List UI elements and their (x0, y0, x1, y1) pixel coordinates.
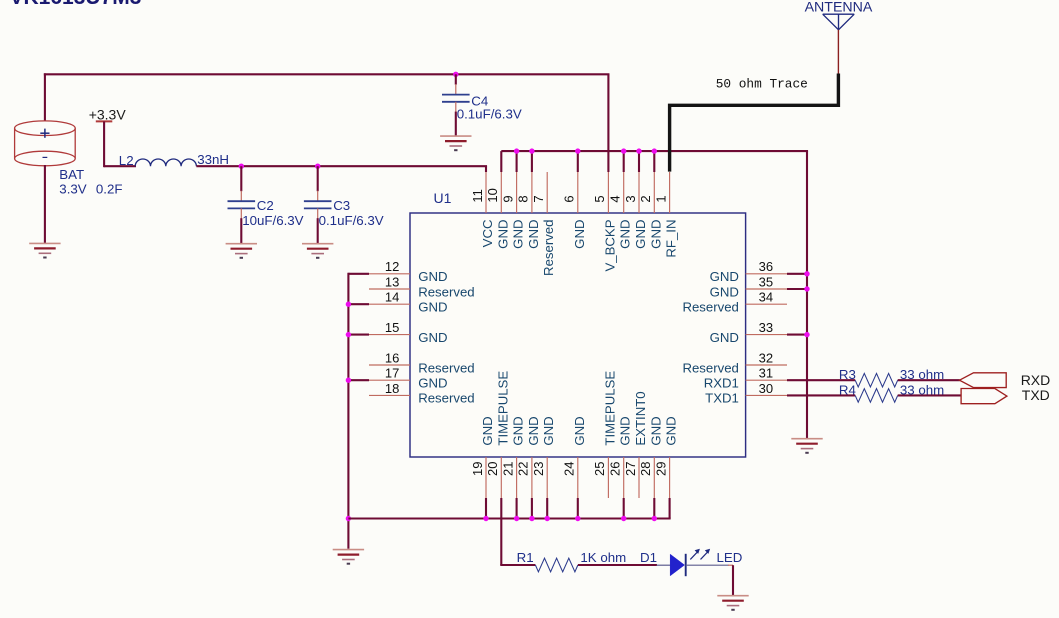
svg-text:34: 34 (759, 290, 773, 305)
svg-text:33 ohm: 33 ohm (900, 382, 944, 397)
svg-text:25: 25 (592, 462, 607, 476)
svg-text:GND: GND (526, 220, 541, 249)
svg-text:0.1uF/6.3V: 0.1uF/6.3V (319, 213, 384, 228)
svg-text:V_BCKP: V_BCKP (602, 219, 617, 271)
svg-text:29: 29 (653, 462, 668, 476)
svg-text:VCC: VCC (480, 219, 495, 247)
svg-text:23: 23 (531, 462, 546, 476)
svg-text:LED: LED (717, 550, 743, 565)
svg-text:6: 6 (562, 195, 577, 202)
svg-text:24: 24 (562, 462, 577, 476)
svg-text:15: 15 (385, 320, 399, 335)
svg-text:GND: GND (648, 416, 663, 445)
svg-text:0.1uF/6.3V: 0.1uF/6.3V (457, 106, 522, 121)
svg-text:33 ohm: 33 ohm (900, 367, 944, 382)
svg-text:GND: GND (633, 220, 648, 249)
svg-text:17: 17 (385, 366, 399, 381)
svg-text:1: 1 (653, 195, 668, 202)
svg-text:2: 2 (638, 195, 653, 202)
svg-text:GND: GND (572, 220, 587, 249)
svg-text:GND: GND (664, 416, 679, 445)
svg-text:27: 27 (623, 462, 638, 476)
svg-text:10uF/6.3V: 10uF/6.3V (242, 213, 303, 228)
svg-text:GND: GND (480, 416, 495, 445)
svg-text:D1: D1 (640, 550, 657, 565)
svg-text:21: 21 (500, 462, 515, 476)
svg-text:GND: GND (511, 416, 526, 445)
svg-text:Reserved: Reserved (682, 360, 738, 375)
svg-text:GND: GND (495, 220, 510, 249)
svg-text:GND: GND (710, 284, 739, 299)
svg-text:14: 14 (385, 290, 399, 305)
svg-text:GND: GND (618, 416, 633, 445)
svg-text:R1: R1 (517, 550, 534, 565)
svg-text:9: 9 (500, 195, 515, 202)
svg-text:12: 12 (385, 259, 399, 274)
svg-text:EXTINT0: EXTINT0 (633, 391, 648, 445)
svg-text:22: 22 (516, 462, 531, 476)
svg-text:Reserved: Reserved (418, 284, 474, 299)
svg-text:16: 16 (385, 350, 399, 365)
svg-text:0.2F: 0.2F (96, 182, 123, 197)
svg-text:VK1613U7M3: VK1613U7M3 (10, 0, 142, 9)
svg-text:Reserved: Reserved (541, 220, 556, 276)
svg-text:5: 5 (592, 195, 607, 202)
svg-text:GND: GND (526, 416, 541, 445)
svg-text:GND: GND (541, 416, 556, 445)
svg-text:35: 35 (759, 274, 773, 289)
svg-text:Reserved: Reserved (682, 300, 738, 315)
svg-text:Reserved: Reserved (418, 391, 474, 406)
svg-text:26: 26 (608, 462, 623, 476)
svg-text:ANTENNA: ANTENNA (805, 0, 873, 15)
svg-text:31: 31 (759, 366, 773, 381)
svg-text:TIMEPULSE: TIMEPULSE (602, 371, 617, 446)
svg-text:32: 32 (759, 350, 773, 365)
svg-text:GND: GND (648, 220, 663, 249)
svg-text:13: 13 (385, 274, 399, 289)
svg-text:GND: GND (418, 300, 447, 315)
svg-text:28: 28 (638, 462, 653, 476)
svg-text:TXD1: TXD1 (705, 391, 739, 406)
svg-text:GND: GND (418, 376, 447, 391)
svg-text:50 ohm Trace: 50 ohm Trace (716, 76, 808, 91)
svg-text:3.3V: 3.3V (59, 182, 86, 197)
svg-text:11: 11 (470, 189, 485, 203)
svg-text:1K ohm: 1K ohm (580, 550, 626, 565)
svg-text:GND: GND (511, 220, 526, 249)
svg-text:33nH: 33nH (197, 152, 229, 167)
svg-text:L2: L2 (119, 153, 134, 168)
svg-text:36: 36 (759, 259, 773, 274)
svg-text:GND: GND (572, 416, 587, 445)
svg-text:C2: C2 (257, 198, 274, 213)
svg-text:RXD1: RXD1 (704, 376, 739, 391)
svg-text:R3: R3 (839, 367, 856, 382)
svg-text:4: 4 (608, 195, 623, 202)
svg-text:10: 10 (485, 188, 500, 202)
svg-text:GND: GND (710, 269, 739, 284)
svg-text:8: 8 (516, 195, 531, 202)
svg-text:Reserved: Reserved (418, 360, 474, 375)
svg-text:GND: GND (418, 330, 447, 345)
svg-text:GND: GND (618, 220, 633, 249)
svg-text:GND: GND (418, 269, 447, 284)
svg-text:U1: U1 (434, 190, 452, 206)
svg-text:R4: R4 (839, 382, 856, 397)
svg-text:C3: C3 (333, 198, 350, 213)
svg-text:TIMEPULSE: TIMEPULSE (495, 371, 510, 446)
svg-text:RF_IN: RF_IN (664, 220, 679, 258)
svg-text:19: 19 (470, 462, 485, 476)
svg-text:3: 3 (623, 195, 638, 202)
svg-text:+3.3V: +3.3V (89, 106, 127, 122)
svg-text:33: 33 (759, 320, 773, 335)
svg-text:GND: GND (710, 330, 739, 345)
svg-text:30: 30 (759, 381, 773, 396)
svg-text:20: 20 (485, 462, 500, 476)
svg-text:TXD: TXD (1022, 387, 1050, 403)
svg-text:RXD: RXD (1021, 372, 1051, 388)
svg-text:18: 18 (385, 381, 399, 396)
svg-text:BAT: BAT (59, 167, 84, 182)
svg-text:7: 7 (531, 195, 546, 202)
